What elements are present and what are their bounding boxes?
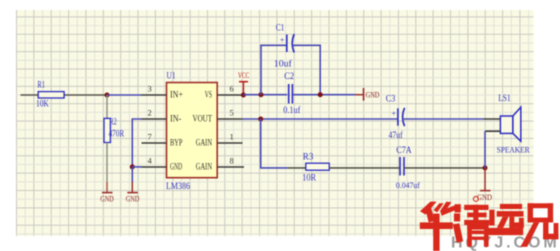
svg-text:GND: GND xyxy=(126,194,140,204)
wire R3 to C7A xyxy=(329,167,399,169)
svg-text:3: 3 xyxy=(148,84,152,94)
node B junction dot (pin2/pin4 ground tie) xyxy=(130,164,135,169)
svg-text:8: 8 xyxy=(230,156,234,166)
wire node A down to R2 xyxy=(106,95,108,119)
svg-text:R3: R3 xyxy=(303,152,314,162)
wire R1 to node A xyxy=(64,94,107,96)
svg-text:GND: GND xyxy=(100,194,114,204)
svg-text:7: 7 xyxy=(148,132,152,142)
wire speaker lower terminal down to node D xyxy=(484,131,486,168)
svg-text:VS: VS xyxy=(205,89,212,99)
svg-text:+: + xyxy=(280,35,285,44)
watermark registered mark xyxy=(473,196,478,201)
pin 1 lead xyxy=(217,142,242,144)
pin 3 lead xyxy=(142,94,167,96)
watermark char 3 (yuan) xyxy=(486,204,524,235)
svg-text:LM386: LM386 xyxy=(166,181,190,191)
resistor R1 xyxy=(36,80,64,109)
ground GND3 (below node D) xyxy=(477,168,492,202)
wire node B to ground xyxy=(131,167,133,182)
wire C3 to speaker xyxy=(404,118,484,120)
svg-text:C7A: C7A xyxy=(396,145,412,155)
svg-text:GAIN: GAIN xyxy=(196,161,213,171)
svg-text:GND: GND xyxy=(477,192,492,202)
svg-text:470R: 470R xyxy=(109,128,125,138)
capacitor C3 xyxy=(386,94,405,141)
node VCC junction dot xyxy=(241,93,246,98)
watermark char 4 (jian) xyxy=(520,203,558,247)
svg-text:GND: GND xyxy=(170,161,183,171)
svg-text:U1: U1 xyxy=(167,71,176,81)
svg-text:1: 1 xyxy=(230,132,234,142)
pin 5 lead xyxy=(217,118,242,120)
svg-text:C1: C1 xyxy=(276,22,285,32)
resistor R3 xyxy=(302,152,329,183)
pin 4 lead xyxy=(142,166,167,168)
node C1 left stub junction dot xyxy=(259,92,264,97)
node OUT junction dot xyxy=(258,117,263,122)
svg-text:0.047uf: 0.047uf xyxy=(396,180,420,190)
svg-text:C2: C2 xyxy=(284,71,294,81)
node D junction dot xyxy=(483,165,488,170)
svg-text:VOUT: VOUT xyxy=(193,113,213,123)
svg-text:5: 5 xyxy=(230,108,234,118)
svg-text:GND: GND xyxy=(366,90,380,100)
wire node OUT down and to R3 xyxy=(261,119,288,168)
svg-text:0.1uf: 0.1uf xyxy=(283,105,300,115)
wire node A to pin3 xyxy=(107,94,142,96)
wire pin2 net: corner down to ground tie xyxy=(132,119,141,167)
svg-text:IN-: IN- xyxy=(170,113,181,123)
ground GND1 (below R2) xyxy=(100,182,114,204)
svg-text:C3: C3 xyxy=(386,94,396,104)
svg-text:10K: 10K xyxy=(36,99,49,109)
svg-text:BYP: BYP xyxy=(170,137,182,147)
svg-text:VCC: VCC xyxy=(238,70,249,80)
wire to R3 left xyxy=(287,167,305,169)
svg-text:LS1: LS1 xyxy=(498,93,511,103)
watermark char 2 (qing) xyxy=(453,204,490,247)
svg-text:6: 6 xyxy=(230,84,234,94)
wire C7A to node D xyxy=(404,167,485,169)
capacitor C7A xyxy=(396,145,420,190)
watermark char 1 (hua) xyxy=(420,202,457,251)
svg-text:GAIN: GAIN xyxy=(196,137,213,147)
svg-text:10R: 10R xyxy=(302,172,316,182)
power GND port (VCC rail) xyxy=(355,88,379,101)
wire node B to pin4 xyxy=(132,166,141,168)
speaker LS1 xyxy=(497,93,530,154)
pin 7 lead xyxy=(142,142,167,144)
wire VCC rail pin6 to C2 xyxy=(243,94,287,96)
wire R2 to ground xyxy=(106,143,108,183)
wire pin5 output to C3 xyxy=(243,118,398,120)
pin 6 lead xyxy=(217,94,243,96)
capacitor C1 xyxy=(274,22,294,68)
pin 2 lead xyxy=(142,118,167,120)
speaker upper pin lead xyxy=(483,118,500,120)
power VCC port xyxy=(238,70,249,95)
svg-text:SPEAKER: SPEAKER xyxy=(497,144,530,154)
svg-text:47uf: 47uf xyxy=(389,130,403,140)
ground GND2 (below node B) xyxy=(126,182,140,204)
svg-text:R1: R1 xyxy=(37,80,45,90)
node A junction dot xyxy=(105,93,110,98)
svg-text:R2: R2 xyxy=(110,117,117,127)
resistor R2 xyxy=(104,117,124,143)
svg-text:IN+: IN+ xyxy=(170,89,183,99)
capacitor C2 xyxy=(283,71,300,115)
pin 8 lead xyxy=(217,166,244,168)
op-amp U1 LM386 body xyxy=(166,71,217,191)
wire C2 to GND port xyxy=(292,94,355,96)
node C1 right stub junction dot xyxy=(318,92,323,97)
svg-text:10uf: 10uf xyxy=(274,58,292,68)
svg-text:+: + xyxy=(392,109,397,118)
svg-text:2: 2 xyxy=(148,108,152,118)
wire input left segment xyxy=(21,94,39,96)
speaker lower pin lead xyxy=(485,130,500,132)
wire C1 bridge right stub xyxy=(293,45,321,94)
wire C1 bridge left stub xyxy=(261,45,287,94)
